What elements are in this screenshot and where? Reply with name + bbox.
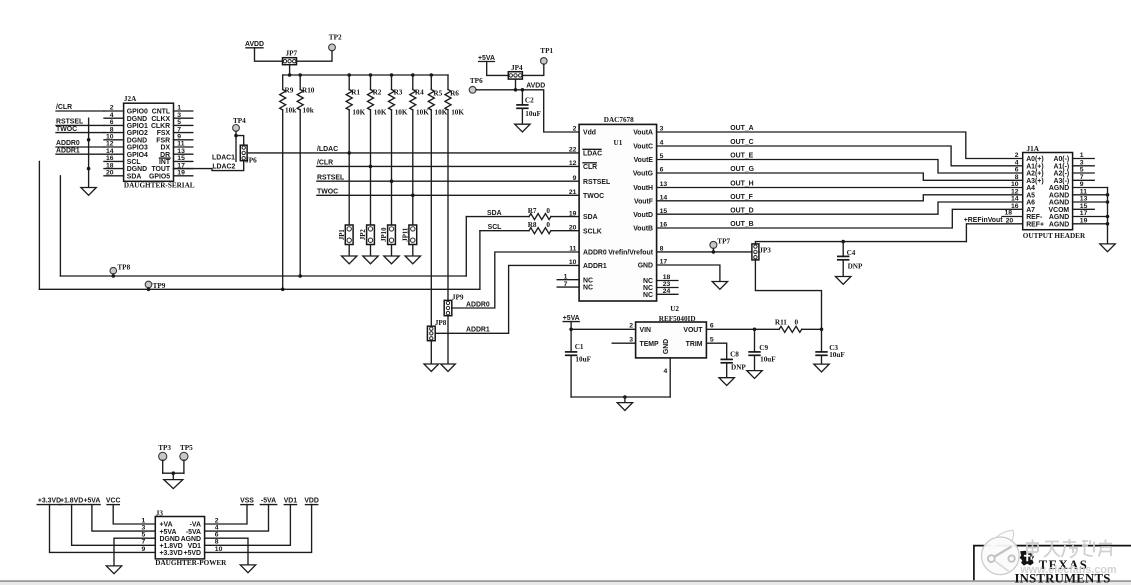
svg-text:/CLR: /CLR — [317, 160, 333, 167]
jumper JP9 — [444, 294, 464, 364]
svg-text:DNP: DNP — [731, 364, 746, 372]
svg-text:4: 4 — [1015, 160, 1019, 167]
svg-text:R1: R1 — [351, 89, 360, 97]
svg-text:AGND: AGND — [181, 536, 201, 543]
svg-text:DNP: DNP — [848, 262, 863, 270]
jumper JP11 — [403, 225, 417, 256]
wire net OUT_D (U1 to J1A) — [657, 202, 1023, 214]
wire net OUT_G (U1 to J1A) — [657, 166, 1023, 180]
svg-text:SDA: SDA — [487, 210, 502, 217]
svg-text:10K: 10K — [451, 109, 464, 117]
svg-text:AGND: AGND — [1049, 192, 1069, 199]
svg-text:REF+: REF+ — [1026, 221, 1044, 228]
svg-text:ADDR1: ADDR1 — [56, 147, 80, 154]
svg-text:R4: R4 — [415, 89, 424, 97]
svg-text:R11: R11 — [775, 318, 787, 326]
svg-text:J3: J3 — [156, 509, 164, 517]
svg-text:VoutD: VoutD — [633, 212, 653, 219]
svg-text:VoutA: VoutA — [633, 130, 653, 137]
svg-text:A7: A7 — [1026, 207, 1035, 214]
svg-text:OUT_A: OUT_A — [730, 125, 753, 132]
wire net OUT_C (U1 to J1A) — [657, 139, 1023, 166]
svg-text:Vrefin/Vrefout: Vrefin/Vrefout — [608, 250, 654, 257]
resistor R5 10K — [428, 75, 447, 326]
svg-text:CNTL: CNTL — [152, 109, 170, 116]
svg-text:6: 6 — [710, 322, 714, 329]
wire TP3/TP5 to ground — [163, 460, 184, 479]
svg-text:+5VA: +5VA — [563, 315, 580, 322]
svg-text:RSTSEL: RSTSEL — [583, 179, 610, 186]
svg-text:DGND: DGND — [127, 137, 147, 144]
resistor R9 10k — [280, 75, 296, 289]
wire U2 bottom ground rail — [571, 395, 670, 402]
svg-text:JP8: JP8 — [435, 319, 447, 327]
connector J3 DAUGHTER-POWER — [142, 509, 228, 567]
test point TP5 — [180, 444, 193, 461]
svg-text:9: 9 — [573, 175, 577, 182]
svg-text:OUT_F: OUT_F — [730, 194, 753, 201]
svg-text:TP8: TP8 — [117, 263, 130, 271]
svg-text:14: 14 — [1011, 196, 1019, 203]
capacitor C3 10uF — [815, 329, 845, 364]
svg-text:10k: 10k — [303, 106, 314, 114]
power flag +5VA — [478, 55, 508, 76]
wire U2 TRIM pin 5 to C8 — [706, 343, 726, 359]
wire J3 DGND pin 5 to ground — [114, 538, 155, 566]
wire U2 GND pin 4 down — [664, 358, 671, 397]
svg-text:A5: A5 — [1026, 192, 1035, 199]
svg-text:+1.8VD: +1.8VD — [160, 543, 183, 550]
svg-text:VoutH: VoutH — [633, 185, 653, 192]
title block frame — [974, 546, 1131, 581]
ground below J2A — [81, 188, 96, 196]
Texas Instruments logo bug — [1020, 551, 1035, 566]
svg-text:JP3: JP3 — [759, 246, 771, 254]
node TWOC label at J2A pin 8 — [56, 126, 104, 133]
ground below JP11 — [405, 256, 420, 264]
svg-text:10uF: 10uF — [829, 351, 845, 359]
power flag +5VA at U2 — [563, 315, 580, 352]
ground below C9 — [747, 371, 762, 379]
ground below JP1 — [342, 256, 357, 264]
wire DGND bus of J2A pins 4,10,18 — [87, 118, 91, 187]
page bottom edge strip — [0, 580, 1131, 585]
wire +REFinVout net (JP3 top - C4 - J1A REF+) — [755, 217, 1022, 244]
ground below TP3/TP5 — [164, 480, 183, 489]
svg-text:20: 20 — [1006, 218, 1014, 225]
svg-text:CLKR: CLKR — [151, 123, 170, 130]
capacitor C8 DNP — [721, 350, 747, 377]
svg-text:TP4: TP4 — [233, 117, 246, 125]
svg-text:21: 21 — [569, 189, 577, 196]
test point TP2 — [329, 33, 342, 50]
svg-text:DGND: DGND — [127, 166, 147, 173]
svg-text:SDA: SDA — [127, 173, 142, 180]
svg-text:ADDR0: ADDR0 — [466, 301, 490, 308]
svg-text:TP5: TP5 — [180, 444, 193, 452]
capacitor C4 DNP — [837, 242, 863, 277]
svg-text:A6: A6 — [1026, 200, 1035, 207]
svg-text:VSS: VSS — [240, 498, 254, 505]
svg-text:3: 3 — [629, 336, 633, 343]
svg-text:2: 2 — [1015, 152, 1019, 159]
power flag -5VA — [205, 498, 277, 531]
svg-text:10: 10 — [569, 259, 577, 266]
svg-text:TP9: TP9 — [153, 282, 166, 290]
svg-text:SCL: SCL — [127, 159, 141, 166]
svg-text:RSTSEL: RSTSEL — [56, 119, 83, 126]
watermark chinese characters — [1026, 539, 1112, 558]
node RSTSEL label at J2A pin 6 — [56, 119, 104, 126]
node ADDR0 label at J2A pin 12 — [56, 140, 104, 147]
ground below JP10 — [384, 256, 399, 264]
jumper JP10 — [381, 225, 395, 256]
node ADDR1 label at J2A pin 14 — [56, 147, 104, 154]
ground below C2 — [515, 124, 530, 132]
svg-text:JP11: JP11 — [403, 227, 410, 242]
svg-text:TP3: TP3 — [158, 444, 171, 452]
svg-text:SCLK: SCLK — [583, 228, 602, 235]
svg-text:OUT_G: OUT_G — [730, 166, 754, 173]
svg-text:+5VD: +5VD — [184, 550, 201, 557]
wire AGND bus of J1A pins 9,11,13,17,19 — [1073, 188, 1110, 244]
ground below J3 AGND — [240, 565, 255, 573]
ground below J3 DGND — [106, 566, 121, 574]
svg-text:0: 0 — [795, 318, 799, 326]
svg-text:AGND: AGND — [1049, 214, 1069, 221]
svg-text:DAUGHTER-POWER: DAUGHTER-POWER — [155, 559, 227, 567]
power flag +3.3VD — [37, 498, 155, 553]
svg-text:DX: DX — [161, 145, 171, 152]
svg-text:+REFinVout: +REFinVout — [964, 217, 1003, 224]
svg-text:6: 6 — [1015, 167, 1019, 174]
watermark elecfans logo circle — [982, 530, 1020, 574]
svg-text:www.elecfans.com: www.elecfans.com — [1019, 564, 1116, 576]
svg-text:NC: NC — [643, 278, 653, 285]
wire AVDD node to U1 Vdd pin 2 — [476, 83, 579, 133]
svg-text:VD1: VD1 — [188, 543, 202, 550]
svg-text:GPIO2: GPIO2 — [127, 130, 148, 137]
svg-text:12: 12 — [569, 160, 577, 167]
ground below JP9 — [441, 364, 456, 371]
svg-text:TEMP: TEMP — [640, 341, 660, 348]
svg-text:VIN: VIN — [640, 327, 652, 334]
svg-text:10uF: 10uF — [575, 356, 591, 364]
svg-text:8: 8 — [1015, 174, 1019, 181]
svg-text:NC: NC — [643, 292, 653, 299]
jumper JP7 — [283, 49, 298, 64]
svg-text:VDD: VDD — [304, 498, 319, 505]
wire SCL from J2A pin16 down — [38, 161, 40, 289]
capacitor C2 10uF — [516, 90, 541, 124]
jumper JP6 — [240, 145, 257, 164]
wire U2 VOUT pin 6 row — [706, 328, 823, 332]
wire net ADDR0 (JP9 - U1 pin11) — [452, 252, 579, 308]
svg-text:10uF: 10uF — [525, 110, 541, 118]
svg-text:TWOC: TWOC — [317, 189, 338, 196]
svg-text:VoutG: VoutG — [633, 171, 653, 178]
svg-text:10K: 10K — [395, 109, 408, 117]
power flag VSS — [205, 498, 255, 524]
svg-text:TRIM: TRIM — [686, 341, 703, 348]
svg-text:OUT_B: OUT_B — [730, 221, 753, 228]
svg-text:TP1: TP1 — [540, 47, 553, 55]
svg-text:A0(-): A0(-) — [1053, 156, 1069, 163]
svg-text:A2(+): A2(+) — [1026, 171, 1043, 178]
svg-text:TWOC: TWOC — [56, 126, 77, 133]
wire net SCL (J2A pin16 - TP9 - R9 - R8 - U1 pin20) — [39, 224, 579, 291]
ground at U1 pin 17 — [712, 282, 727, 290]
svg-text:TWOC: TWOC — [583, 193, 604, 200]
svg-text:DAC7678: DAC7678 — [604, 116, 634, 124]
svg-text:INT: INT — [159, 159, 171, 166]
svg-text:2: 2 — [629, 322, 633, 329]
svg-text:VoutB: VoutB — [633, 226, 653, 233]
wire U1 GND pin17 to ground — [657, 265, 720, 282]
wire net OUT_F (U1 to J1A) — [657, 194, 1023, 201]
svg-text:A1(-): A1(-) — [1053, 163, 1069, 170]
resistor R3 10K — [389, 75, 408, 224]
svg-text:ADDR1: ADDR1 — [466, 327, 490, 334]
svg-text:GPIO1: GPIO1 — [127, 123, 148, 130]
svg-text:VoutF: VoutF — [634, 198, 653, 205]
svg-text:VOUT: VOUT — [683, 327, 703, 334]
svg-text:R2: R2 — [373, 89, 382, 97]
svg-text:0: 0 — [546, 221, 550, 229]
svg-text:10K: 10K — [352, 109, 365, 117]
svg-text:U2: U2 — [670, 305, 679, 313]
svg-text:JP7: JP7 — [286, 49, 298, 57]
svg-text:C2: C2 — [525, 96, 534, 104]
svg-text:LDAC1: LDAC1 — [212, 155, 235, 162]
svg-text:10k: 10k — [285, 106, 296, 114]
svg-text:C8: C8 — [730, 350, 739, 358]
svg-text:R7: R7 — [528, 207, 537, 215]
op-amp U2 REF5040ID — [629, 305, 714, 358]
svg-text:GPIO5: GPIO5 — [149, 173, 170, 180]
svg-text:TP6: TP6 — [470, 77, 483, 85]
power flag VDD — [205, 498, 319, 553]
wire JP4 to TP1 — [522, 64, 543, 75]
pin NC stubs U1 right pins 18,23,24 — [657, 281, 678, 295]
svg-text:16: 16 — [1011, 203, 1019, 210]
ground below U2 — [617, 403, 632, 411]
svg-text:JP4: JP4 — [511, 64, 523, 72]
svg-text:10K: 10K — [374, 109, 387, 117]
svg-text:OUTPUT HEADER: OUTPUT HEADER — [1023, 232, 1086, 240]
svg-text:JP9: JP9 — [452, 294, 464, 302]
svg-text:20: 20 — [569, 224, 577, 231]
jumper JP8 — [427, 319, 446, 364]
svg-text:R3: R3 — [394, 89, 403, 97]
svg-text:GPIO0: GPIO0 — [127, 109, 148, 116]
power flag VD1 — [205, 498, 298, 546]
svg-text:CLR: CLR — [583, 164, 597, 171]
wire J1A REF- stub pin 18 — [1002, 210, 1023, 217]
svg-text:10K: 10K — [416, 109, 429, 117]
ground below JP8 — [424, 364, 439, 371]
svg-text:OUT_E: OUT_E — [730, 153, 753, 160]
svg-text:VCC: VCC — [106, 498, 121, 505]
resistor R10 10k — [297, 75, 315, 276]
pin NC stubs U1 left pins 1,7 — [557, 280, 579, 287]
svg-text:+3.3VD: +3.3VD — [38, 498, 61, 505]
wire U1 Vrefin/Vrefout pin8 row — [657, 251, 752, 253]
svg-text:GND: GND — [663, 339, 670, 354]
svg-text:CLKX: CLKX — [151, 116, 170, 123]
svg-text:+3.3VD: +3.3VD — [160, 550, 183, 557]
wire net OUT_H (U1 to J1A) — [657, 181, 1023, 188]
svg-text:VD1: VD1 — [284, 498, 298, 505]
svg-text:DAUGHTER-SERIAL: DAUGHTER-SERIAL — [124, 181, 195, 189]
svg-text:JP2: JP2 — [360, 229, 367, 241]
svg-text:GPIO4: GPIO4 — [127, 152, 148, 159]
svg-text:-5VA: -5VA — [261, 498, 276, 505]
svg-text:NC: NC — [583, 277, 593, 284]
svg-text:10uF: 10uF — [760, 356, 776, 364]
resistor R4 10K — [410, 75, 429, 224]
wire TP4 to LDAC1 — [234, 131, 244, 161]
svg-text:R10: R10 — [302, 86, 315, 94]
wire LDAC2 from J2A pin17 to JP6 — [174, 161, 244, 171]
wire net OUT_B (U1 to J1A) — [657, 209, 1023, 228]
wire SDA from J2A pin20 down — [59, 176, 61, 276]
svg-text:AVDD: AVDD — [526, 83, 545, 90]
wire net OUT_A (U1 to J1A) — [657, 125, 1023, 158]
svg-text:5: 5 — [710, 336, 714, 343]
wire net RSTSEL row — [317, 174, 579, 183]
svg-text:OUT_D: OUT_D — [730, 207, 753, 214]
svg-text:2: 2 — [573, 126, 577, 133]
svg-text:SCL: SCL — [488, 224, 502, 231]
svg-text:AVDD: AVDD — [245, 41, 264, 48]
svg-text:OUT_H: OUT_H — [730, 181, 753, 188]
svg-text:A3(+): A3(+) — [1026, 178, 1043, 185]
Texas Instruments logo text — [1014, 558, 1110, 585]
test point TP9 — [145, 281, 166, 290]
svg-text:J2A: J2A — [124, 95, 137, 103]
jumper JP1 — [339, 225, 353, 256]
svg-text:FSX: FSX — [157, 130, 171, 137]
ground below JP2 — [363, 256, 378, 264]
svg-text:JP10: JP10 — [381, 227, 388, 242]
svg-text:LDAC: LDAC — [583, 151, 602, 158]
test point TP1 — [540, 47, 553, 64]
svg-text:A1(+): A1(+) — [1026, 163, 1043, 170]
svg-text:ADDR0: ADDR0 — [56, 140, 80, 147]
wire net /LDAC row — [247, 146, 579, 155]
svg-text:/CLR: /CLR — [56, 104, 72, 111]
test point TP3 — [158, 444, 171, 461]
svg-text:J1A: J1A — [1027, 145, 1040, 153]
wire J3 AGND pin 6 to ground — [205, 538, 248, 565]
svg-text:AGND: AGND — [1049, 221, 1069, 228]
svg-text:11: 11 — [569, 246, 576, 253]
svg-text:+1.8VD: +1.8VD — [60, 498, 83, 505]
svg-text:A3(-): A3(-) — [1053, 178, 1069, 185]
svg-text:GPIO3: GPIO3 — [127, 145, 148, 152]
wire JP4 middle to AVDD node — [515, 79, 517, 90]
svg-text:FSR: FSR — [156, 137, 170, 144]
svg-text:+VA: +VA — [160, 522, 173, 529]
node /CLR label at J2A pin 2 — [56, 104, 104, 111]
power flag VCC — [106, 498, 155, 524]
svg-text:0: 0 — [546, 207, 550, 215]
jumper JP2 — [360, 225, 374, 256]
svg-text:C4: C4 — [847, 249, 856, 257]
wire pull-up bus AVDD — [283, 73, 448, 77]
svg-text:DGND: DGND — [127, 116, 147, 123]
test point TP6 — [469, 77, 483, 93]
resistor R7 0 ohm — [528, 207, 551, 220]
wire net ADDR1 (JP8 - U1 pin10) — [435, 265, 579, 333]
svg-text:ADDR1: ADDR1 — [583, 263, 607, 270]
svg-text:10: 10 — [1011, 181, 1019, 188]
svg-text:GND: GND — [638, 263, 653, 270]
svg-text:TP7: TP7 — [717, 238, 730, 246]
svg-text:A2(-): A2(-) — [1053, 171, 1069, 178]
svg-text:REF-: REF- — [1026, 214, 1043, 221]
svg-text:-VA: -VA — [190, 522, 201, 529]
svg-text:A0(+): A0(+) — [1026, 156, 1043, 163]
svg-text:U1: U1 — [614, 139, 623, 147]
wire +5VA to U2 VIN pin 2 — [571, 328, 636, 330]
svg-text:TOUT: TOUT — [151, 166, 170, 173]
svg-text:+5VA: +5VA — [83, 498, 100, 505]
svg-text:+5VA: +5VA — [160, 529, 177, 536]
svg-text:19: 19 — [569, 210, 577, 217]
svg-text:RSTSEL: RSTSEL — [317, 174, 344, 181]
svg-text:NC: NC — [583, 285, 593, 292]
svg-text:Vdd: Vdd — [583, 130, 596, 137]
svg-text:OUT_C: OUT_C — [730, 139, 753, 146]
resistor R1 10K — [346, 75, 365, 224]
resistor R8 0 ohm — [528, 221, 551, 234]
capacitor C1 10uF — [565, 343, 592, 397]
svg-text:/LDAC: /LDAC — [317, 146, 338, 153]
test point TP4 — [233, 117, 247, 131]
svg-text:TP2: TP2 — [329, 33, 342, 41]
svg-text:AGND: AGND — [1049, 200, 1069, 207]
wire U2 TEMP stub pin 3 — [612, 342, 635, 344]
svg-text:C1: C1 — [575, 343, 584, 351]
svg-text:VoutC: VoutC — [633, 144, 653, 151]
connector J2A DAUGHTER-SERIAL — [104, 95, 195, 189]
ground below C4 — [836, 277, 851, 285]
svg-text:LDAC2: LDAC2 — [212, 163, 235, 170]
svg-text:-5VA: -5VA — [186, 529, 201, 536]
op-amp U1 DAC7678 — [564, 116, 671, 301]
svg-text:18: 18 — [1005, 210, 1013, 217]
svg-text:22: 22 — [569, 147, 577, 154]
svg-text:VCOM: VCOM — [1049, 207, 1070, 214]
wire net SDA (J2A pin20 - TP8 - R10 - R7 - U1 pin19) — [60, 210, 579, 278]
svg-text:C9: C9 — [759, 344, 768, 352]
svg-text:R9: R9 — [285, 86, 294, 94]
svg-text:12: 12 — [1011, 189, 1019, 196]
wire JP7 middle to pull-up bus — [289, 65, 291, 75]
svg-text:R8: R8 — [528, 221, 537, 229]
wire J1A right no-connect stubs pins 1,3,5,7,15 — [1073, 159, 1095, 210]
ground below C3 — [814, 364, 829, 372]
jumper JP3 — [752, 244, 771, 260]
resistor R2 10K — [368, 75, 387, 224]
resistor R11 0 ohm — [775, 318, 802, 332]
wire JP7 to TP2 — [297, 51, 333, 61]
wire net TWOC row — [317, 189, 579, 198]
power flag +5VA — [83, 498, 155, 531]
test point TP8 — [110, 263, 131, 274]
